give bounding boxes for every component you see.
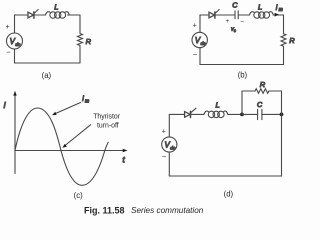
svg-text:−: −: [162, 152, 167, 161]
svg-text:(a): (a): [42, 71, 52, 80]
svg-text:R: R: [289, 36, 295, 45]
wire top-left (b): [200, 14, 209, 16]
node 1 (d): [240, 113, 244, 117]
svg-text:m: m: [85, 99, 89, 105]
left rail (d): [168, 114, 170, 176]
wire inductor-to-corner (a): [68, 15, 81, 34]
svg-text:L: L: [216, 101, 220, 110]
svg-text:Series commutation: Series commutation: [131, 206, 204, 215]
svg-text:(b): (b): [238, 70, 248, 79]
wire inductor-to-node1 (d): [228, 113, 242, 115]
svg-text:turn-off: turn-off: [97, 123, 119, 130]
resistor R (d): [255, 89, 269, 94]
svg-text:i: i: [276, 5, 278, 12]
inductor L (a): [46, 12, 51, 15]
wire right-bottom (a): [15, 46, 81, 64]
svg-text:dc: dc: [170, 146, 176, 152]
svg-text:+: +: [162, 128, 166, 135]
svg-text:m: m: [279, 7, 283, 13]
svg-text:(d): (d): [224, 189, 234, 198]
svg-text:−: −: [193, 50, 198, 59]
arrow to waveform i_m: [55, 103, 81, 114]
svg-text:t: t: [123, 156, 126, 165]
wire thyristor-to-inductor (d): [191, 113, 204, 115]
sine waveform: [15, 108, 108, 185]
inductor L (b): [250, 12, 255, 15]
right rail (b): [283, 15, 285, 34]
right rail (d): [281, 114, 283, 176]
wire right-bottom (b): [200, 46, 284, 64]
source Vdc (d): [162, 137, 177, 152]
wire node1-to-capacitor (d): [242, 113, 258, 115]
capacitor C (b): [234, 11, 236, 19]
svg-text:−: −: [240, 19, 244, 26]
svg-text:Thyristor: Thyristor: [93, 113, 121, 120]
arrow to zero crossing: [65, 125, 91, 146]
svg-text:dc: dc: [201, 41, 207, 47]
svg-text:L: L: [54, 2, 58, 11]
wire capacitor-to-node2 (d): [262, 113, 282, 115]
capacitor C (d): [257, 109, 259, 119]
thyristor T1 (a): [28, 12, 34, 18]
svg-text:R: R: [86, 37, 92, 46]
svg-text:L: L: [258, 2, 262, 11]
svg-text:(c): (c): [74, 191, 83, 200]
wire inductor-to-corner (b) with current arrow: [273, 14, 283, 16]
wire thyristor-to-inductor (a): [35, 14, 46, 16]
svg-text:−: −: [6, 47, 11, 56]
svg-text:+: +: [226, 18, 230, 25]
svg-text:i: i: [4, 100, 7, 110]
current arrow i_m (b): [275, 13, 279, 17]
bottom wire (d): [169, 175, 281, 177]
resistor R (b): [281, 34, 286, 47]
left rail (b): [199, 15, 201, 65]
thyristor T1 (b): [209, 12, 215, 18]
wire top-left (d): [169, 113, 184, 115]
svg-text:R: R: [260, 80, 266, 89]
thyristor T1 (d): [185, 112, 191, 118]
vertical axis i: [14, 95, 16, 174]
branch node1 up (d): [242, 91, 255, 114]
svg-text:c: c: [234, 28, 237, 33]
inductor L (d): [204, 111, 209, 114]
source Vdc (b): [192, 32, 207, 47]
source Vdc (a): [7, 33, 23, 49]
svg-text:i: i: [82, 96, 84, 103]
svg-text:Fig. 11.58: Fig. 11.58: [84, 205, 125, 215]
svg-text:dc: dc: [15, 42, 21, 48]
svg-text:+: +: [6, 24, 10, 31]
svg-text:C: C: [232, 0, 238, 9]
horizontal axis t: [15, 150, 125, 152]
wire top-left (a): [15, 14, 29, 16]
wire capacitor-to-inductor (b): [238, 14, 249, 16]
resistor R (a): [78, 34, 83, 46]
svg-text:+: +: [193, 22, 197, 29]
svg-text:C: C: [257, 100, 263, 109]
wire thyristor-to-capacitor (b): [216, 14, 235, 16]
wire left rail (a): [14, 15, 16, 63]
branch to node2 down (d): [269, 91, 281, 114]
node 2 (d): [280, 113, 284, 117]
